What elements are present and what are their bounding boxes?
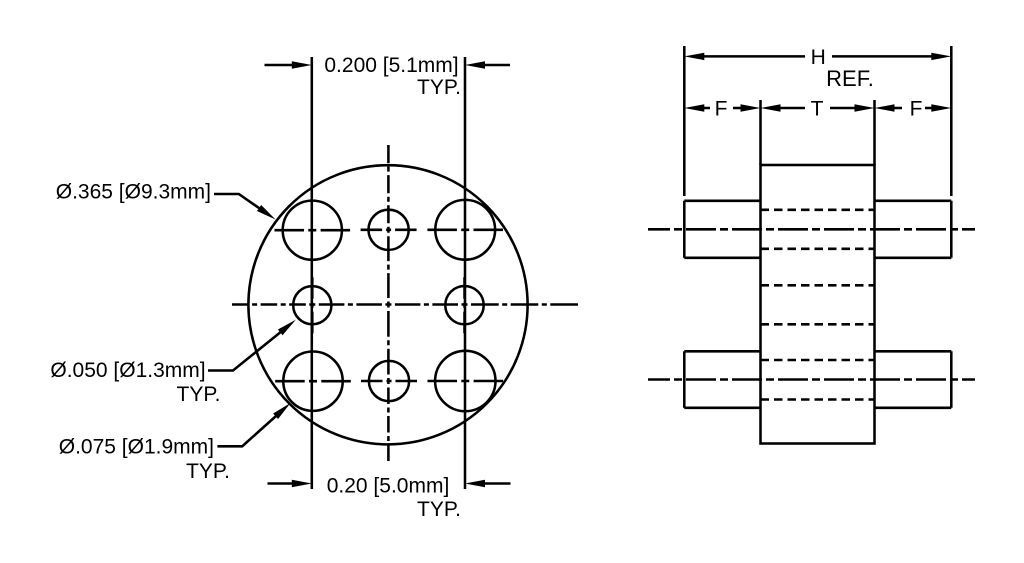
vertical extension line right column <box>464 57 467 489</box>
svg-text:TYP.: TYP. <box>417 498 461 521</box>
centerline cross hole top-left <box>275 229 351 232</box>
svg-text:T: T <box>811 98 824 121</box>
centerline cross hole mid-right vertical <box>463 277 466 333</box>
svg-text:TYP.: TYP. <box>177 383 221 406</box>
svg-text:Ø.050 [Ø1.3mm]: Ø.050 [Ø1.3mm] <box>50 359 205 382</box>
hidden line hole middle lower <box>761 323 875 326</box>
hole bottom-left (Ø.365) <box>283 352 342 411</box>
arrowhead bottom dim right <box>465 480 485 487</box>
svg-text:Ø.075 [Ø1.9mm]: Ø.075 [Ø1.9mm] <box>59 436 214 459</box>
hidden line hole middle upper <box>761 284 875 287</box>
centerline cross hole bottom-center horizontal <box>361 380 417 383</box>
dimension line bottom-right arrow <box>484 482 511 485</box>
leader line for Ø.050 <box>208 332 281 371</box>
right view: lower-left flange pin <box>684 350 760 353</box>
right view: central rectangle (body, thickness T) <box>761 165 875 444</box>
arrowhead leader Ø.075 <box>273 403 290 419</box>
arrowhead T right <box>855 104 875 111</box>
extension line T left <box>759 100 762 165</box>
hole top-left (Ø.365) <box>283 201 342 260</box>
hidden line hole top upper <box>761 209 875 212</box>
arrowhead T left <box>761 104 781 111</box>
arrowhead top dim right <box>465 61 485 68</box>
centerline cross hole mid-left vertical <box>311 277 314 333</box>
svg-text:H: H <box>811 46 826 69</box>
dimension line top-right arrow <box>484 64 510 67</box>
right view lower centerline <box>648 378 975 381</box>
arrowhead leader Ø.050 <box>278 320 296 335</box>
hidden line hole bottom upper <box>761 359 875 362</box>
svg-text:0.200 [5.1mm]: 0.200 [5.1mm] <box>324 54 458 77</box>
arrowhead F1 right <box>741 104 761 111</box>
right view upper centerline <box>648 228 975 231</box>
svg-text:TYP.: TYP. <box>186 460 230 483</box>
right view: upper-right flange pin <box>875 200 952 203</box>
arrowhead leader Ø.365 <box>257 205 276 220</box>
right view: lower-right flange pin <box>875 350 952 353</box>
hole top-center (Ø.075) <box>369 210 409 250</box>
H dimension line <box>702 55 805 58</box>
extension line H left <box>683 46 686 196</box>
F left dimension line <box>702 107 710 110</box>
leader line for Ø.365 <box>214 194 261 209</box>
right view: upper-left flange pin <box>684 200 760 203</box>
hole top-right (Ø.365) <box>435 200 495 260</box>
svg-text:F: F <box>910 98 923 121</box>
centerline cross hole bottom-left <box>275 380 351 383</box>
svg-text:TYP.: TYP. <box>417 76 461 99</box>
outer circle (part face outline) <box>248 165 527 444</box>
leader line for Ø.075 <box>217 416 276 447</box>
extension line H right <box>950 46 953 196</box>
arrowhead top dim left <box>292 61 312 68</box>
horizontal centerline of part <box>232 303 578 306</box>
vertical centerline of part <box>387 145 390 461</box>
svg-text:0.20 [5.0mm]: 0.20 [5.0mm] <box>327 475 450 498</box>
T dimension line <box>778 107 805 110</box>
arrowhead H left <box>684 53 704 60</box>
hole bottom-right (Ø.365) <box>435 351 495 411</box>
arrowhead bottom dim left <box>292 480 312 487</box>
arrowhead F2 left <box>875 104 895 111</box>
F right dimension line <box>892 107 902 110</box>
svg-text:REF.: REF. <box>826 66 874 91</box>
hidden line hole bottom lower <box>761 398 875 401</box>
centerline cross hole top-right <box>427 229 503 232</box>
hole mid-right (Ø.050) <box>445 286 483 324</box>
hole mid-left (Ø.050) <box>293 286 331 324</box>
hole bottom-center (Ø.075) <box>369 361 409 401</box>
svg-text:Ø.365 [Ø9.3mm]: Ø.365 [Ø9.3mm] <box>56 181 211 204</box>
dimension line top-left arrow <box>265 64 294 67</box>
arrowhead H right <box>931 53 951 60</box>
arrowhead F2 right <box>931 104 951 111</box>
arrowhead F1 left <box>684 104 704 111</box>
svg-text:F: F <box>715 98 728 121</box>
vertical extension line left column <box>311 57 314 489</box>
centerline cross hole top-center horizontal <box>361 229 417 232</box>
hidden line hole top lower <box>761 248 875 251</box>
dimension line bottom-left arrow <box>268 482 294 485</box>
extension line T right <box>873 100 876 165</box>
centerline cross hole bottom-right <box>428 380 504 383</box>
